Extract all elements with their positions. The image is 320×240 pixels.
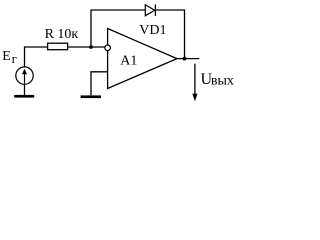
resistor R 10к — [48, 43, 68, 50]
wire: non-inverting input — [91, 72, 108, 95]
ground (source) — [14, 95, 34, 98]
wire: source top lead and corner to resistor — [25, 47, 48, 67]
wire: resistor to op-amp input — [68, 46, 105, 48]
node junction (inverting input / feedback) — [89, 45, 93, 49]
op-amp A1 — [108, 29, 177, 89]
svg-text:Eг: Eг — [2, 49, 17, 66]
svg-text:Uвых: Uвых — [201, 71, 234, 89]
wire: op-amp output — [177, 58, 199, 60]
svg-text:R 10к: R 10к — [45, 27, 79, 42]
ground (non-inverting input) — [81, 95, 101, 98]
node junction (output / feedback) — [183, 57, 187, 61]
wire: feedback vertical up — [91, 10, 145, 47]
diode VD1 — [145, 5, 154, 16]
svg-text:A1: A1 — [120, 53, 137, 68]
source internal arrow (EMF direction) — [24, 73, 26, 84]
inversion circle on inverting input — [105, 45, 111, 51]
svg-text:VD1: VD1 — [139, 23, 166, 38]
voltage source E1 circle — [16, 67, 33, 84]
output voltage arrow — [194, 64, 196, 95]
wire: diode to right corner and down to output — [155, 10, 184, 59]
wire: source bottom lead — [24, 84, 26, 95]
